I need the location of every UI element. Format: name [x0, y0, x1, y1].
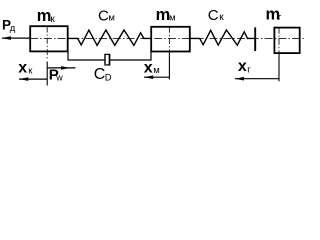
svg-text:г: г [247, 65, 251, 76]
svg-text:x: x [18, 59, 27, 76]
svg-text:D: D [105, 73, 112, 84]
svg-text:к: к [50, 14, 55, 25]
svg-text:x: x [238, 58, 247, 75]
svg-text:г: г [278, 12, 282, 23]
svg-text:w: w [55, 72, 63, 82]
svg-text:к: к [219, 12, 224, 23]
svg-text:м: м [169, 13, 176, 24]
svg-text:C: C [94, 66, 106, 83]
svg-text:C: C [208, 7, 219, 24]
svg-text:C: C [98, 7, 109, 24]
svg-text:m: m [156, 6, 171, 24]
svg-text:м: м [153, 65, 160, 76]
svg-text:m: m [37, 7, 52, 25]
svg-text:д: д [10, 23, 16, 34]
svg-text:м: м [108, 12, 115, 23]
svg-text:x: x [144, 60, 153, 77]
